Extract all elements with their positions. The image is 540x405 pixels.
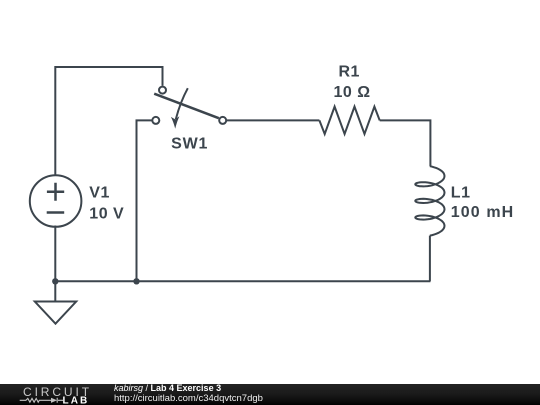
switch SW1 arrowhead bbox=[171, 116, 180, 129]
svg-text:10 V: 10 V bbox=[89, 205, 124, 222]
logo diode triangle bbox=[51, 398, 57, 403]
logo resistor zigzag and diode strokes bbox=[20, 398, 63, 403]
svg-text:LAB: LAB bbox=[63, 395, 90, 405]
wire bottom rail bbox=[55, 280, 430, 282]
inductor L1 bbox=[415, 166, 444, 235]
resistor R1 bbox=[319, 107, 379, 134]
switch SW1 pin circles bbox=[152, 87, 226, 124]
wire V1 top to switch top pin bbox=[55, 67, 162, 176]
wire resistor to right corner down to inductor bbox=[380, 120, 431, 166]
junction node dots bbox=[52, 278, 140, 284]
wire switch right pin to resistor bbox=[227, 119, 320, 121]
svg-text:V1: V1 bbox=[89, 185, 110, 202]
credit line bbox=[114, 384, 221, 393]
V1 plus sign bbox=[47, 183, 64, 201]
wire switch left pin stub down to bottom rail bbox=[137, 120, 153, 281]
svg-text:100 mH: 100 mH bbox=[451, 204, 515, 221]
footer bar bbox=[0, 384, 540, 405]
svg-text:R1: R1 bbox=[339, 64, 360, 81]
CircuitLab logo bbox=[0, 384, 110, 405]
svg-text:10 Ω: 10 Ω bbox=[334, 84, 371, 101]
svg-text:L1: L1 bbox=[451, 185, 471, 202]
wire V1 bottom to ground bbox=[54, 226, 56, 302]
switch SW1 arrow shaft bbox=[176, 88, 188, 119]
url line bbox=[114, 394, 263, 404]
switch SW1 blade bbox=[154, 94, 219, 119]
ground bbox=[35, 302, 76, 324]
V1 minus sign bbox=[47, 211, 64, 214]
voltage source V1 bbox=[30, 175, 82, 227]
svg-text:SW1: SW1 bbox=[171, 136, 208, 153]
wire inductor bottom bbox=[429, 236, 431, 282]
